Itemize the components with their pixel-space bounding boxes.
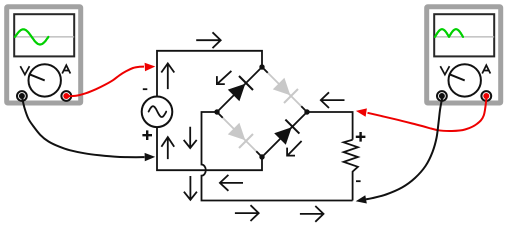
diode D2 (gray, off) [273,78,291,96]
black test lead (left meter to source bottom) [22,97,145,158]
arrow down (bridge left leg upper) [184,127,197,148]
node bottom [259,154,264,159]
meter M1 screen [14,14,74,56]
meter M1 (left oscilloscope/meter) frame [7,7,81,103]
label + (source bottom) [142,130,152,140]
label - (resistor bottom) [356,180,361,182]
meter M2 rectified trace [435,29,463,37]
meter M1 needle [29,74,45,80]
node top [259,64,264,69]
bridge arm bottom-right (conducting) [262,112,307,157]
wire bridge left leg with hop over bottom wire [202,112,353,201]
black stubs on gray arms near nodes [217,67,307,157]
label - (source top) [143,88,148,90]
red test lead (right meter to load top) [368,97,487,131]
meter M2 label A [482,65,490,73]
wire source bottom leg [157,127,262,170]
arrow right (bottom return wire left) [235,205,259,221]
meter M2 (right oscilloscope/meter) frame [427,7,501,103]
arrow right (top wire) [196,32,221,48]
arrow up (source bottom leg) [161,137,174,159]
resistor R (load) [344,140,358,201]
meter M2 screen [434,14,494,56]
meter M1 red terminal [61,91,71,101]
bridge arm top-right (gray, off) [262,67,307,112]
arrow up (source top leg) [161,63,174,89]
diode D3 (gray, off) [228,123,246,141]
bridge arm bottom-left (gray, off) [217,112,262,157]
meter M1 label V [20,66,29,74]
meter M1 label A [62,65,70,73]
meter M1 dial [29,64,61,96]
meter M2 dial [449,64,481,96]
meter M1 screen baseline [15,36,74,38]
arrow left (below bottom loop wire) [220,175,243,191]
red test lead (left meter to source top) [66,67,144,97]
diode D1 (black) [228,84,246,102]
arrow right (bottom return wire right) [300,206,324,222]
meter M2 black terminal [437,91,447,101]
arrow down-left (at diode D1) [217,71,232,84]
diode D4 (black) [274,127,292,145]
meter M2 red terminal [481,91,491,101]
arrow left (right node wire) [321,92,345,108]
meter M1 sine trace [15,29,48,44]
AC source V1 [142,97,173,128]
bridge arm top-left (conducting) [217,67,262,112]
label + (resistor top) [356,132,366,142]
meter M1 black terminal [17,91,27,101]
meter M2 needle [449,74,465,80]
node left [214,109,219,114]
meter M2 label V [440,66,449,74]
black test lead (right meter to load bottom) [366,97,442,199]
arrow down (bridge left leg lower) [184,176,197,200]
wire top (source top to bridge top) [157,51,262,97]
meter M2 screen baseline [435,36,494,38]
wire bridge right to load [307,112,353,140]
node right [304,109,309,114]
arrow down-left (at diode D4) [287,141,302,156]
